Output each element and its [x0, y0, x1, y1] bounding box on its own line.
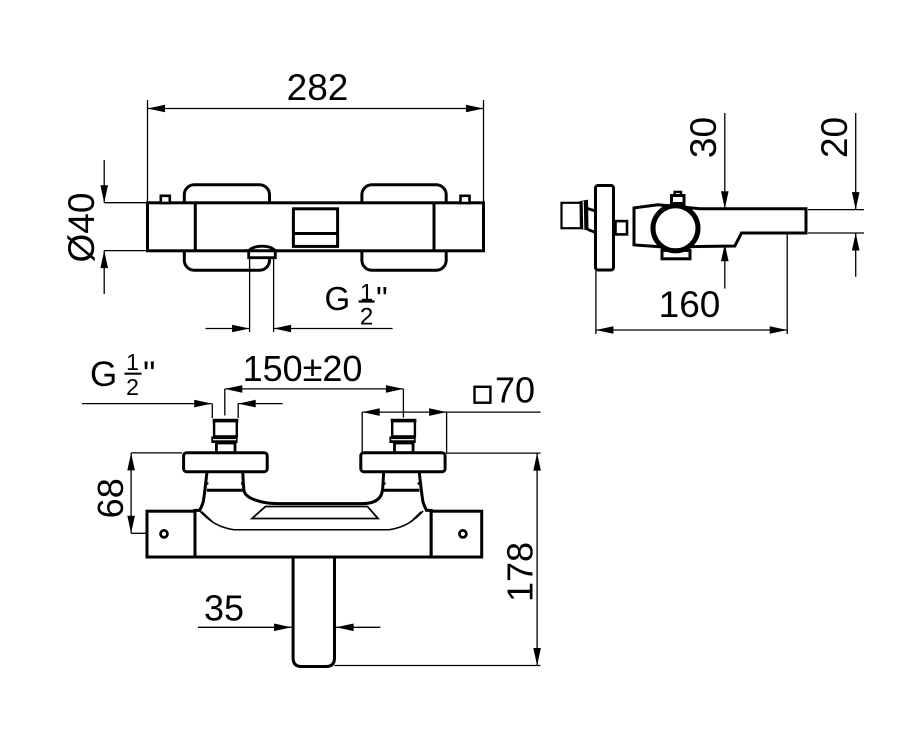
dim 150 ext left [224, 389, 226, 416]
dim D40 ext bottom [104, 250, 146, 252]
knob circle [653, 206, 698, 251]
svg-text:150±20: 150±20 [243, 348, 363, 389]
handle square left [147, 511, 195, 557]
dim 70 line [362, 411, 540, 413]
pipe cone [588, 209, 596, 233]
dim 68 ext top [131, 452, 182, 454]
right neck flange line [384, 489, 420, 492]
left pipe upper rect [214, 421, 237, 437]
dim 70 ext left [361, 412, 363, 453]
G12 top-view arrow left [206, 328, 250, 330]
dim 70 ext right [446, 412, 448, 453]
svg-text:": " [143, 355, 155, 394]
svg-text:20: 20 [814, 117, 855, 158]
right fillet sliver [410, 512, 422, 523]
G12 top-view ext line left [249, 259, 251, 332]
left neck flange line [207, 489, 243, 492]
label G 1/2 (front view) [90, 349, 155, 400]
dim 282 extension line right [483, 100, 485, 202]
badge divider [293, 232, 337, 235]
dim 20 lower shaft [855, 233, 857, 277]
handle dot right [459, 530, 466, 537]
dim 35 arrow left [198, 626, 292, 628]
pipe nut (dark) [580, 200, 589, 231]
G12 top-view ext line right [273, 259, 275, 332]
handle dot left [161, 530, 168, 537]
svg-text:1: 1 [126, 349, 139, 375]
handle square right [431, 511, 482, 557]
dim 282 dimension line [148, 108, 484, 110]
escutcheon right [361, 453, 445, 472]
dim 150 ext right [402, 389, 404, 418]
right screw [461, 196, 470, 203]
dim 282 extension line left [147, 100, 149, 202]
svg-text:70: 70 [495, 370, 535, 411]
knob stem square [672, 196, 685, 204]
left pipe collar [216, 443, 235, 453]
escutcheon left [184, 453, 268, 472]
spout (front view) [293, 557, 334, 667]
pipe stub [562, 203, 582, 228]
handle right (top view) [362, 185, 446, 271]
dim 30 upper shaft [724, 113, 726, 209]
dim 30 lower shaft [724, 244, 726, 289]
svg-text:30: 30 [683, 117, 724, 158]
body facet highlight [252, 507, 378, 519]
dim D40 ext top [104, 202, 146, 204]
knob stem nub [675, 192, 681, 197]
dim 282 arrowhead left [148, 105, 166, 113]
label G 1/2 (view1) [325, 280, 388, 331]
dim D40 lower shaft [103, 251, 105, 294]
center badge plate [293, 209, 337, 247]
left fillet sliver [202, 512, 214, 523]
right pipe nut band [389, 436, 415, 443]
dim 282 arrowhead right [466, 105, 484, 113]
handle left (top view) [184, 185, 269, 271]
shower outlet bump [249, 246, 276, 257]
dim 70 square symbol [475, 387, 491, 403]
wall plate [596, 186, 614, 271]
dim 150 line [225, 388, 404, 390]
svg-text:2: 2 [360, 304, 373, 331]
dim 35 arrow right [336, 626, 380, 628]
dim 160 ext right [786, 234, 788, 334]
right pipe upper rect [392, 421, 415, 437]
svg-text:G: G [90, 355, 117, 394]
left screw [161, 196, 170, 203]
dim 178 shaft [536, 453, 538, 665]
dim 178 ext top [446, 452, 541, 454]
small bump on body back [616, 221, 628, 234]
svg-text:2: 2 [126, 374, 139, 400]
svg-text:": " [376, 280, 388, 317]
dim 68 ext bottom [131, 532, 147, 534]
svg-text:Ø40: Ø40 [61, 193, 102, 263]
dim 160 ext left [595, 271, 597, 334]
knob bottom rect [662, 250, 690, 258]
right cap divider [433, 203, 436, 251]
dim 68 shaft [130, 453, 132, 533]
svg-text:G: G [325, 280, 351, 317]
body silhouette [195, 469, 431, 558]
spout tip ext line bottom [808, 232, 864, 234]
spout tip ext line top [808, 209, 864, 211]
dim 178 ext bottom [335, 665, 541, 667]
G12 top-view arrow right [274, 328, 393, 330]
dim 20 upper shaft [855, 113, 857, 210]
left pipe nut band [211, 436, 237, 443]
body and spout outline [634, 205, 806, 247]
svg-text:178: 178 [500, 542, 541, 602]
dim 160 line [596, 329, 787, 331]
G12 arrows (front view) [82, 403, 212, 405]
svg-text:68: 68 [90, 478, 131, 518]
dim D40 upper shaft [103, 160, 105, 203]
G12 ext lines (front view) [211, 404, 213, 418]
svg-text:160: 160 [659, 284, 721, 325]
svg-text:282: 282 [287, 67, 349, 108]
left cap divider [194, 203, 197, 251]
body bottom line over bump [246, 249, 278, 252]
svg-text:35: 35 [204, 588, 244, 629]
body barrel (top view) [148, 203, 484, 251]
neck side tick nubs [205, 482, 209, 484]
body waist contour [200, 511, 423, 530]
right pipe collar [395, 443, 414, 453]
